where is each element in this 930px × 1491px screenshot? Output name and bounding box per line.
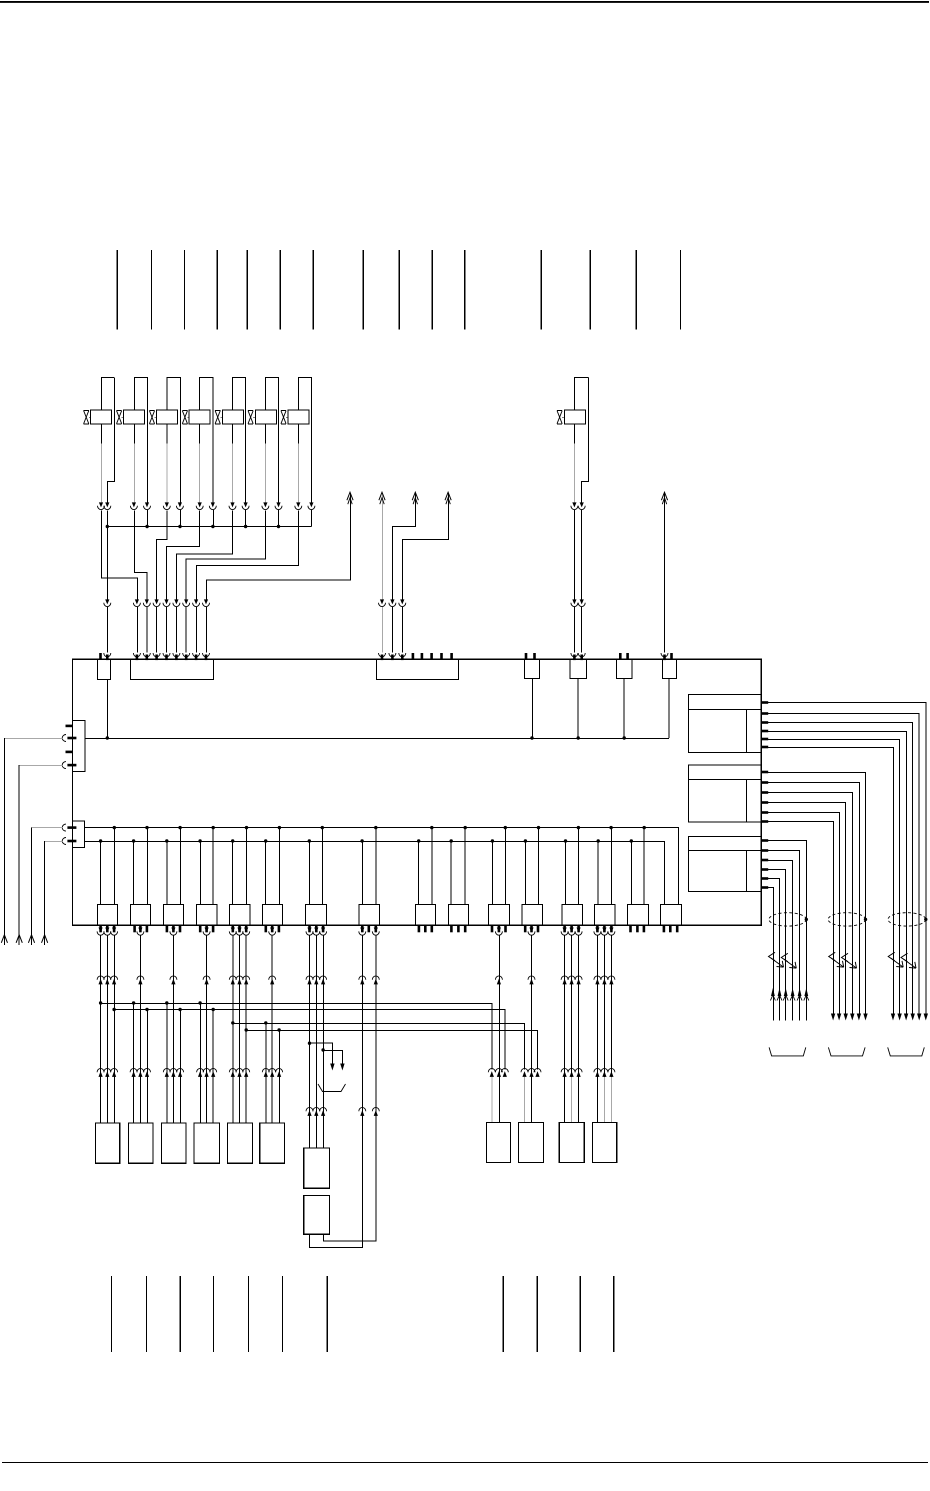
solenoid valve V3 body [156,377,180,424]
shield junction [924,918,927,921]
distribution wire H4 [246,1030,537,1069]
harness columns H loop to CN-G2 [310,935,363,1247]
solenoid V2 signal wire (left, light) [133,424,135,502]
harness column J2 [530,936,532,1123]
lower connector CN-D [194,1123,219,1163]
harness column D2 [206,936,208,1124]
twisted pair marks bundle 2 [829,952,857,968]
solenoid valve V6 body [255,377,278,424]
bottom off-page connection stubs [111,1276,613,1352]
G1 branch wire to arrow [309,1043,332,1063]
solenoid valve V1 armature X symbol [84,411,91,424]
junction [623,736,626,739]
wire: V1 return to ECU pin 1 [106,510,108,599]
light wire segments above lower connectors [492,1077,612,1122]
wire: ECU pin 10 off-page (light) [381,493,383,599]
solenoid V8 supply wire (right) [582,377,589,502]
H1 splices [132,1001,202,1123]
ECU top edge pin sockets (wired) [104,653,668,660]
top off-page connection stubs [117,250,680,330]
harness column B2 [139,936,141,1124]
ECU case outline [72,659,761,925]
wire rail 1 end to CN-D4 [668,679,670,739]
ECU internal connector block CN-D3 [617,659,632,678]
solenoid return bus wire [107,525,311,527]
harness columns K [565,936,579,1123]
lower connector CN-F [260,1123,285,1163]
solenoid V8 signal wire (left, light) [573,424,575,502]
cable bracket bundle 2 [828,1047,865,1056]
wire LC1-738 to off-page (light) [4,737,62,739]
ECU internal connector block CN-D4 [662,659,676,678]
shield junction [805,918,808,921]
ECU internal connector block CN-D2 [570,659,586,678]
ECU left connector LC2 [72,821,84,847]
solenoid V5 supply wire (right) [245,377,247,502]
arrow up [661,492,667,504]
wire: V1 signal to ECU pin 2 [101,510,137,599]
harness columns E [233,936,246,1124]
lower connector CN-A [95,1123,119,1163]
lower connector CN-I [487,1122,511,1162]
ECU internal connector block CN-C [376,659,458,679]
wire: V8 return to ECU [581,510,583,599]
arrow up pin 12 [445,492,451,504]
lower connector CN-L [592,1122,616,1162]
distribution wire H1 [101,1003,492,1069]
solenoid V5 signal wire (left, light) [231,424,233,502]
solenoid V4 signal wire (left, light) [199,424,201,502]
cable bracket bundle 3 [769,1047,806,1056]
ECU internal connector block CN-B [131,659,214,679]
wire CN-D3 to rail 1 [623,679,625,739]
right side pins block A and wires to bundle 1 [761,701,928,1020]
solenoid valve V1 body [90,377,114,424]
ECU top edge stub pins [99,653,673,659]
wire down to arrow [44,841,46,945]
H2 splices [145,1008,215,1123]
junction [530,736,533,739]
solenoid V1 supply wire (right) [107,377,114,502]
ECU left connector LC1 [72,720,85,771]
junction [577,736,580,739]
harness columns G [309,936,323,1149]
LC1 stub pins [66,725,73,754]
splice H1 [99,1001,102,1004]
junction [106,736,109,739]
ECU bottom edge pins [97,925,678,935]
ECU internal connector block CN-A [97,659,110,679]
solenoid V6 signal wire (left, light) [264,424,266,502]
ECU output driver block B [688,765,761,822]
shield ellipse bundle 1 [888,913,926,926]
splice H4 [245,1028,248,1031]
harness column A2 [106,936,108,1124]
wire down to arrow [3,738,5,945]
solenoid V4 supply wire (right) [212,377,214,502]
harness junction symbols row 2 [97,1068,615,1116]
wire: ECU pin to off-page arrow right [663,493,665,652]
LC2 socket pin 841 [62,838,76,845]
wire: V8 signal to ECU [573,510,575,599]
arrow up pin 11 [412,492,418,504]
H4 splice F3 [277,1028,280,1031]
harness column A3 [113,936,115,1124]
right side pins block C and wires to bundle 3 [761,839,809,1021]
wire CN-D1 to rail 1 [531,679,533,739]
distribution wire H3 [233,1023,525,1069]
ECU internal rail 1 [85,737,669,739]
page bottom border line [2,1461,928,1463]
LC2 socket pin 827 [62,824,76,831]
lower connector CN-B [128,1123,153,1163]
wire: V7 signal to ECU pin 8 [196,510,298,599]
lower connector CN-G1 [304,1148,330,1188]
wire LC1-765 to off-page (light) [19,764,62,766]
ECU internal rail 3 [84,841,664,904]
solenoid V6 supply wire (right) [277,377,279,502]
wires row2 to ECU edge [107,607,581,652]
wire down to arrow [18,765,20,945]
splice H3 [231,1021,234,1024]
wire: V2 signal to ECU pin 3 [134,510,147,599]
lower connector CN-K [559,1122,584,1162]
harness column I2 [498,936,500,1123]
twisted pair marks bundle 1 [888,952,916,968]
ECU internal connector block CN-D1 [525,659,540,678]
shield ellipse bundle 2 [828,913,865,926]
rail 2 distribution drops [113,826,646,904]
cable bracket bundle 1 [888,1047,925,1056]
wire: V6 signal to ECU pin 7 [186,510,265,599]
harness column F2 [271,936,273,1124]
solenoid valve V7 body [288,377,312,424]
solenoid V7 signal wire (left, light) [297,424,299,502]
harness column C2 [172,936,174,1124]
wire: V5 signal to ECU pin 6 [176,510,232,599]
rail 3 distribution drops [99,839,633,904]
wire: ECU pin 12 off-page [402,493,448,599]
harness column A1 [100,936,102,1124]
wire: V3 signal to ECU pin 4 [157,510,167,599]
shield junction [864,918,867,921]
solenoid valve V8 body [564,377,588,424]
wire CN-D2 to rail 1 [577,679,579,739]
connector junction symbols row 2 (ECU harness) [104,599,585,606]
solenoid V1 signal wire (left, light) [100,424,102,502]
shield bracket G [318,1084,346,1092]
wire: V4 signal to ECU pin 5 [166,510,199,599]
solenoid V2 supply wire (right) [146,377,148,502]
wire CN-A to rail 1 [106,679,108,738]
ECU output driver block C [688,836,761,891]
solenoid valve V3 armature X symbol [149,411,156,424]
connector junction symbols row 1 (solenoid harness) [98,502,586,509]
solenoid V3 supply wire (right) [179,377,181,502]
solenoid V3 signal wire (left, light) [166,424,168,502]
solenoid valve V4 body [189,377,213,424]
wire: ECU pin 9 to off-page arrow [206,493,350,599]
solenoid valve V2 body [123,377,147,424]
page top border line [0,1,929,3]
ECU internal rail 2 [84,828,678,905]
return wires from row1 to bus [147,510,311,527]
arrow up pin 10 [379,492,385,504]
solenoid V7 supply wire (right) [310,377,312,502]
solenoid valve V5 armature X symbol [215,411,222,424]
bus junctions [106,525,281,528]
solenoid valve V8 armature X symbol [557,411,564,424]
ECU bottom edge connector blocks [97,904,681,925]
wire LC2-841 to off-page (light) [45,840,63,842]
lower connector CN-J [519,1122,544,1162]
distribution wire H2 [114,1009,505,1069]
G3 branch junction [321,1048,324,1051]
twisted pair marks bundle 3 [769,952,797,968]
harness columns L [597,936,611,1123]
lower connector CN-C [161,1123,186,1163]
splice H2 [112,1008,115,1011]
solenoid valve V7 armature X symbol [281,411,288,424]
wire down to arrow [30,828,32,945]
off-page arrow up [347,492,353,504]
G1 branch junction [308,1042,311,1045]
wire: ECU pin 11 off-page [392,493,415,599]
solenoid valve V4 armature X symbol [182,411,189,424]
ECU output driver block A [688,694,761,752]
H3 splice F1 [264,1021,267,1024]
harness junction symbols row 1 [97,976,615,985]
lower connector CN-G2 [304,1195,330,1234]
wire LC2-827 to off-page (light) [32,827,63,829]
solenoid valve V2 armature X symbol [117,411,124,424]
solenoid valve V5 body [222,377,245,424]
right side pins block B and wires to bundle 2 [761,771,868,1021]
solenoid valve V6 armature X symbol [248,411,255,424]
LC1 socket pin 765 [62,762,76,769]
lower connector CN-E [227,1123,252,1163]
G3 branch wire to arrow [323,1050,342,1063]
shield ellipse bundle 3 [769,913,806,926]
LC1 socket pin 738 [62,735,76,742]
